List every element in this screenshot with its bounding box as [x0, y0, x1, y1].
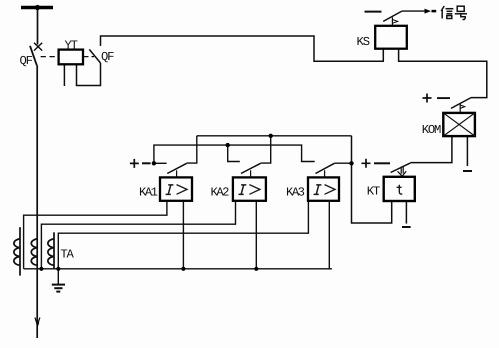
svg-text:QF: QF: [20, 54, 33, 68]
svg-text:YT: YT: [65, 38, 78, 52]
svg-text:QF: QF: [101, 50, 114, 64]
svg-text:KS: KS: [357, 35, 371, 49]
svg-text:KA3: KA3: [286, 186, 305, 200]
svg-text:TA: TA: [60, 247, 74, 261]
svg-text:KOM: KOM: [422, 123, 442, 137]
svg-text:KT: KT: [367, 184, 380, 198]
svg-text:KA2: KA2: [211, 186, 230, 200]
svg-text:KA1: KA1: [139, 186, 158, 200]
